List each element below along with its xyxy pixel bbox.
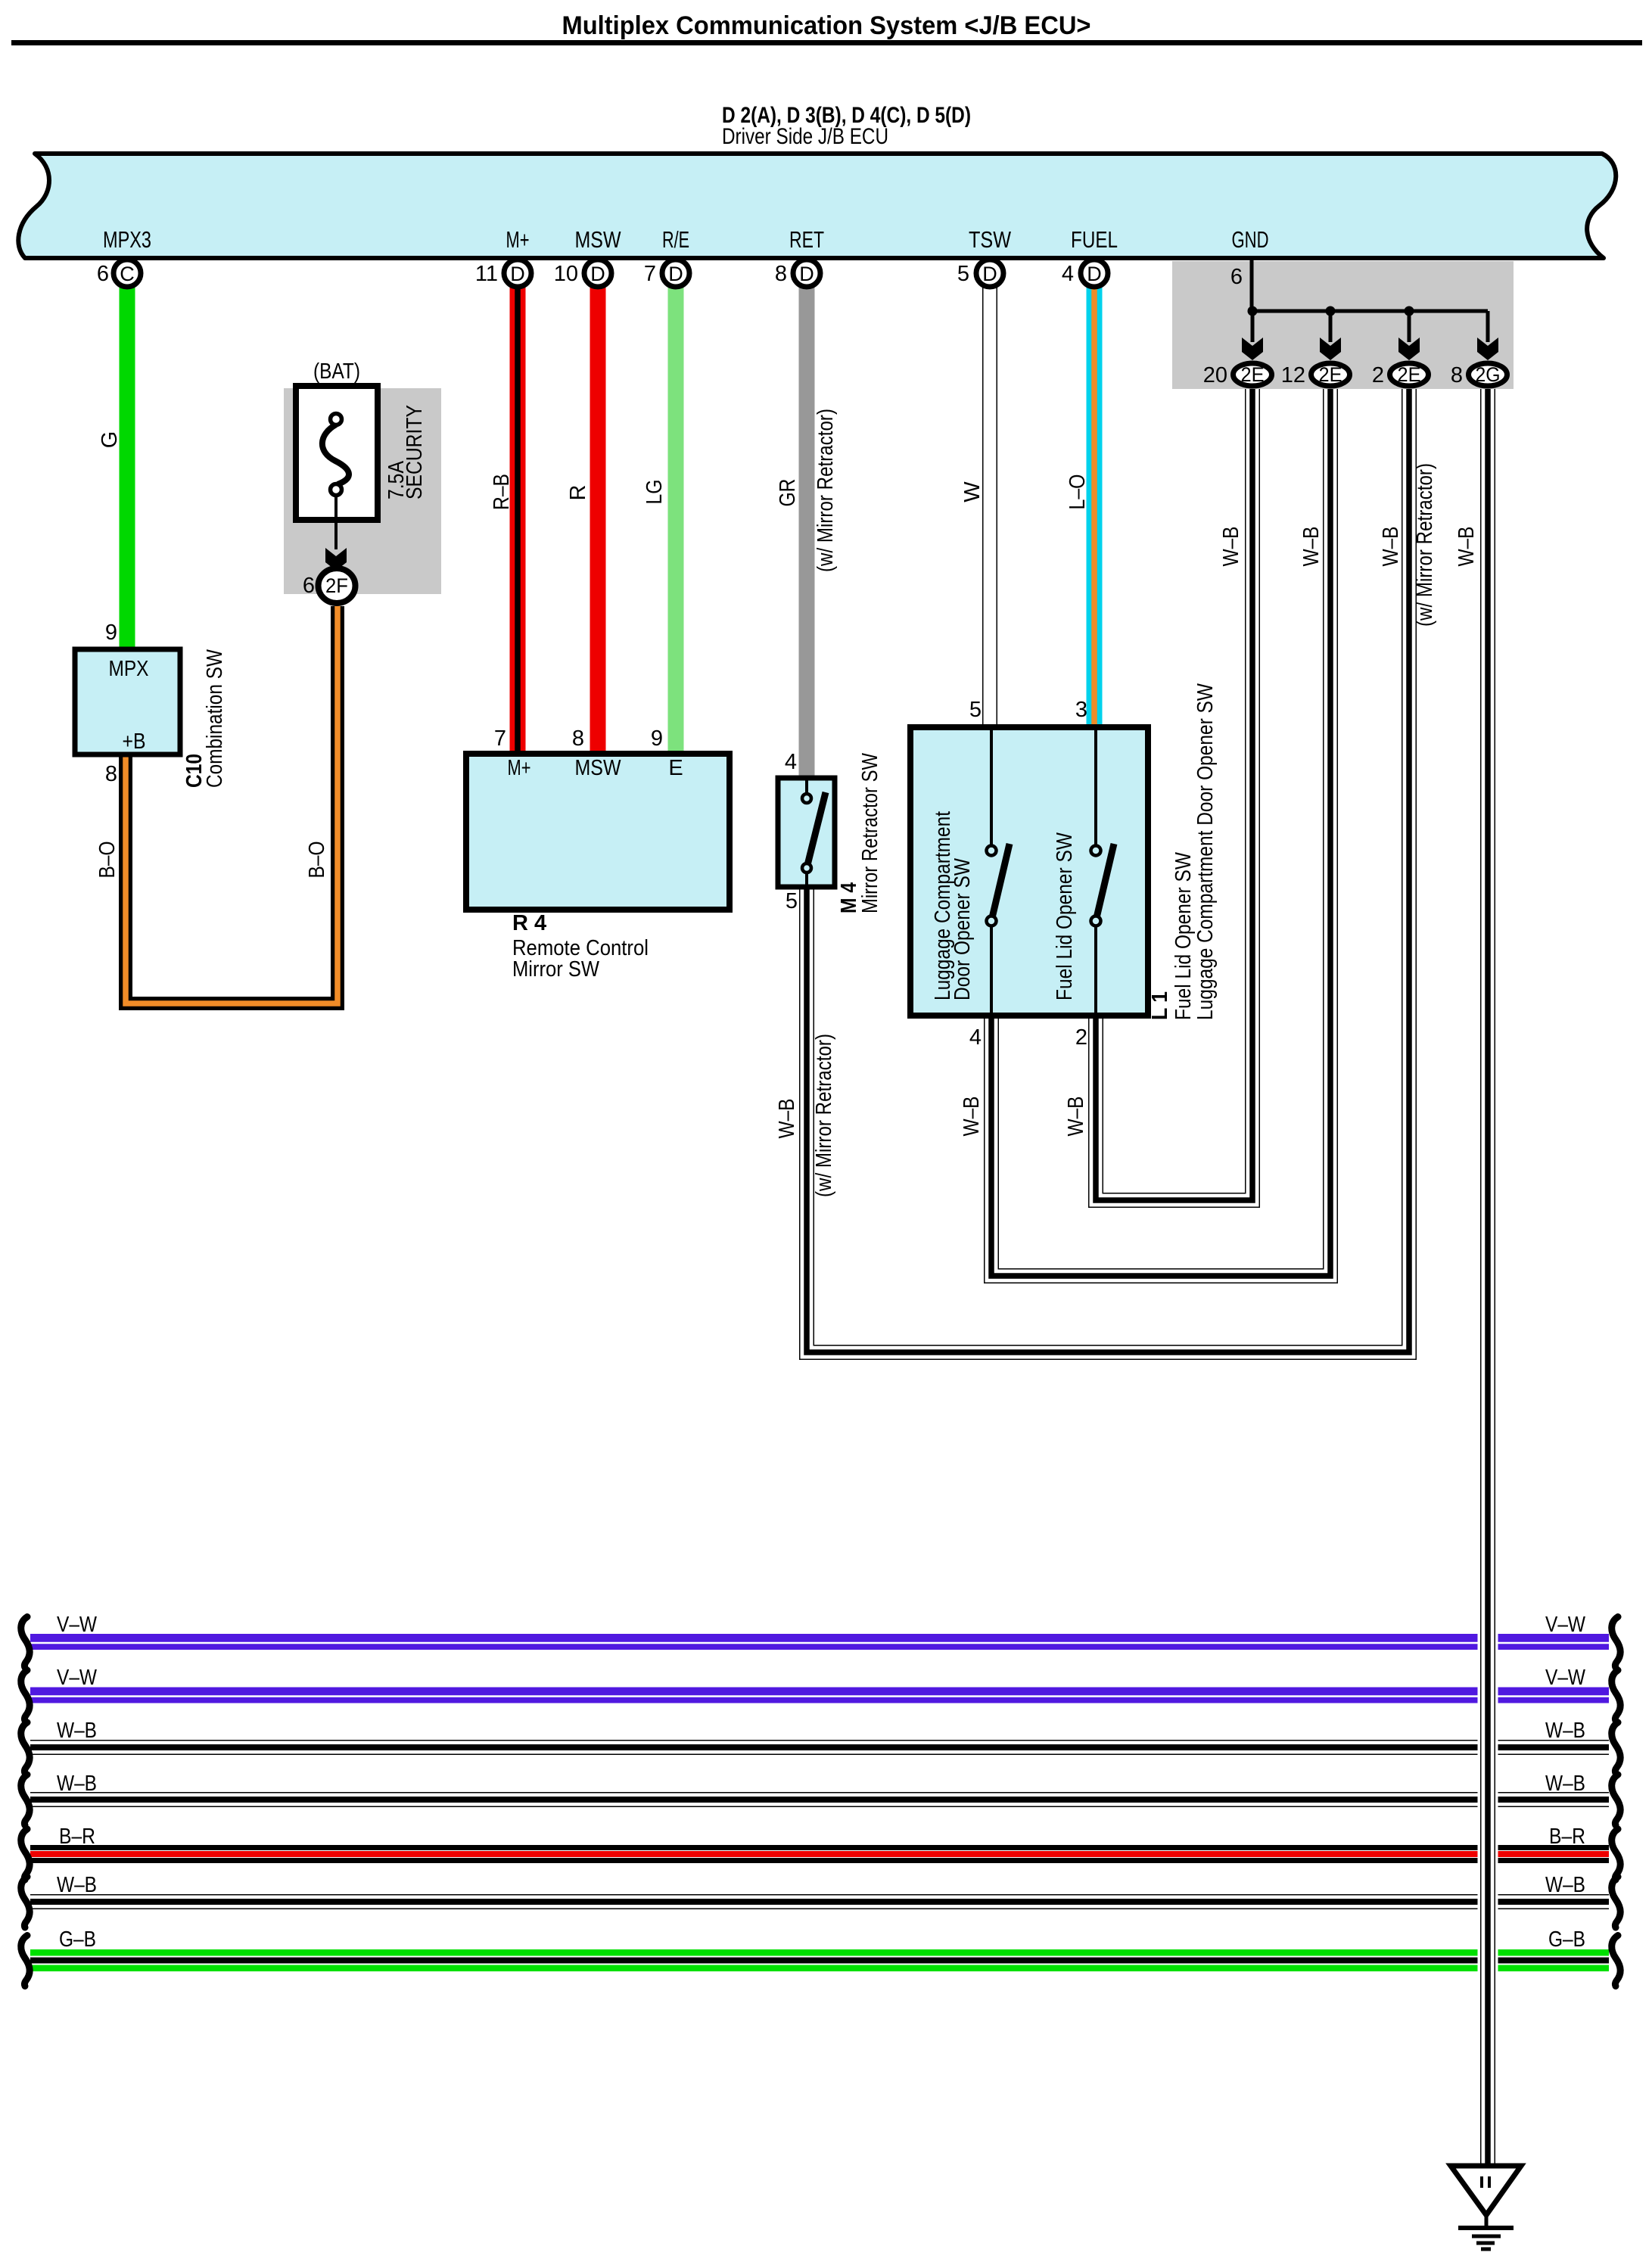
- svg-text:D: D: [590, 263, 605, 285]
- svg-text:R/E: R/E: [662, 226, 689, 253]
- svg-text:(w/ Mirror Retractor): (w/ Mirror Retractor): [812, 1034, 836, 1197]
- svg-text:4: 4: [969, 1025, 982, 1050]
- svg-text:G–B: G–B: [1548, 1927, 1585, 1952]
- svg-text:Combination SW: Combination SW: [203, 649, 227, 788]
- svg-text:W–B: W–B: [1379, 527, 1403, 567]
- svg-text:V–W: V–W: [57, 1666, 98, 1690]
- svg-text:B–O: B–O: [305, 842, 329, 879]
- svg-text:MSW: MSW: [575, 756, 622, 780]
- svg-text:G: G: [98, 431, 122, 449]
- svg-text:G–B: G–B: [59, 1927, 96, 1952]
- svg-text:V–W: V–W: [1545, 1666, 1586, 1690]
- svg-text:GR: GR: [776, 479, 800, 507]
- svg-text:6: 6: [303, 574, 315, 598]
- svg-text:+B: +B: [123, 730, 146, 754]
- svg-text:R 4: R 4: [512, 911, 546, 935]
- svg-text:8: 8: [105, 762, 117, 786]
- svg-text:W–B: W–B: [1454, 527, 1479, 567]
- svg-text:W–B: W–B: [57, 1719, 97, 1743]
- svg-text:W–B: W–B: [1219, 527, 1243, 567]
- svg-text:D: D: [668, 263, 683, 285]
- svg-text:W–B: W–B: [1545, 1873, 1585, 1897]
- svg-text:D: D: [510, 263, 525, 285]
- svg-text:2E: 2E: [1398, 363, 1421, 386]
- svg-text:W–B: W–B: [57, 1873, 97, 1897]
- svg-text:MSW: MSW: [575, 226, 622, 253]
- svg-text:(w/ Mirror Retractor): (w/ Mirror Retractor): [1413, 463, 1437, 627]
- svg-text:RET: RET: [789, 226, 824, 253]
- svg-text:2F: 2F: [325, 574, 348, 597]
- svg-text:Fuel Lid Opener SW: Fuel Lid Opener SW: [1053, 832, 1077, 1000]
- svg-text:W–B: W–B: [960, 1097, 984, 1137]
- svg-text:V–W: V–W: [57, 1613, 98, 1637]
- svg-text:5: 5: [957, 262, 969, 286]
- svg-text:W–B: W–B: [775, 1099, 799, 1139]
- svg-text:Mirror SW: Mirror SW: [512, 957, 600, 982]
- svg-text:V–W: V–W: [1545, 1613, 1586, 1637]
- svg-text:7: 7: [644, 262, 656, 286]
- svg-text:7: 7: [494, 726, 506, 751]
- svg-text:TSW: TSW: [969, 226, 1012, 253]
- svg-text:E: E: [668, 756, 683, 780]
- svg-text:2: 2: [1075, 1025, 1087, 1050]
- svg-text:9: 9: [651, 726, 663, 751]
- svg-text:11: 11: [475, 262, 498, 286]
- svg-text:M+: M+: [508, 756, 531, 780]
- svg-text:6: 6: [1230, 265, 1243, 289]
- svg-text:5: 5: [969, 698, 982, 722]
- svg-text:L 1: L 1: [1148, 991, 1172, 1020]
- svg-text:R: R: [566, 485, 590, 501]
- svg-text:6: 6: [97, 262, 109, 286]
- svg-text:C: C: [120, 263, 135, 285]
- svg-text:5: 5: [786, 889, 798, 913]
- svg-text:FUEL: FUEL: [1071, 226, 1118, 253]
- svg-text:Mirror Retractor SW: Mirror Retractor SW: [858, 752, 882, 913]
- svg-text:Fuel Lid Opener SW: Fuel Lid Opener SW: [1171, 851, 1196, 1020]
- svg-text:D: D: [982, 263, 997, 285]
- svg-text:R–B: R–B: [490, 474, 514, 510]
- svg-text:8: 8: [1451, 363, 1463, 387]
- svg-text:D: D: [799, 263, 814, 285]
- svg-text:4: 4: [1062, 262, 1074, 286]
- svg-text:8: 8: [775, 262, 787, 286]
- svg-text:W–B: W–B: [1299, 527, 1324, 567]
- svg-text:9: 9: [105, 621, 117, 645]
- svg-text:3: 3: [1075, 698, 1087, 722]
- svg-text:2G: 2G: [1476, 363, 1501, 386]
- svg-text:(w/ Mirror Retractor): (w/ Mirror Retractor): [814, 409, 838, 572]
- svg-text:(BAT): (BAT): [313, 359, 360, 384]
- svg-text:10: 10: [554, 262, 578, 286]
- svg-text:Luggage Compartment Door Opene: Luggage Compartment Door Opener SW: [1193, 683, 1218, 1020]
- svg-text:20: 20: [1203, 363, 1227, 387]
- svg-text:4: 4: [785, 750, 797, 774]
- svg-text:2: 2: [1372, 363, 1384, 387]
- svg-text:MPX3: MPX3: [103, 226, 151, 253]
- svg-text:W–B: W–B: [1545, 1772, 1585, 1796]
- svg-text:2E: 2E: [1241, 363, 1265, 386]
- svg-text:B–O: B–O: [95, 842, 120, 879]
- svg-text:SECURITY: SECURITY: [403, 405, 427, 499]
- svg-text:MPX: MPX: [109, 657, 149, 681]
- svg-text:GND: GND: [1232, 226, 1269, 253]
- svg-text:W–B: W–B: [1064, 1097, 1088, 1137]
- svg-text:B–R: B–R: [59, 1825, 95, 1849]
- svg-text:LG: LG: [642, 480, 667, 505]
- svg-text:D: D: [1087, 263, 1102, 285]
- svg-text:W–B: W–B: [57, 1772, 97, 1796]
- svg-text:Driver Side J/B ECU: Driver Side J/B ECU: [722, 124, 888, 149]
- svg-text:L–O: L–O: [1066, 474, 1090, 510]
- svg-text:2E: 2E: [1319, 363, 1342, 386]
- svg-text:12: 12: [1281, 363, 1305, 387]
- svg-text:M+: M+: [506, 226, 530, 253]
- svg-text:8: 8: [572, 726, 584, 751]
- svg-text:W–B: W–B: [1545, 1719, 1585, 1743]
- svg-text:Multiplex Communication System: Multiplex Communication System <J/B ECU>: [562, 11, 1091, 40]
- svg-text:B–R: B–R: [1549, 1825, 1585, 1849]
- svg-text:Door Opener SW: Door Opener SW: [950, 857, 975, 1000]
- svg-text:W: W: [960, 481, 985, 502]
